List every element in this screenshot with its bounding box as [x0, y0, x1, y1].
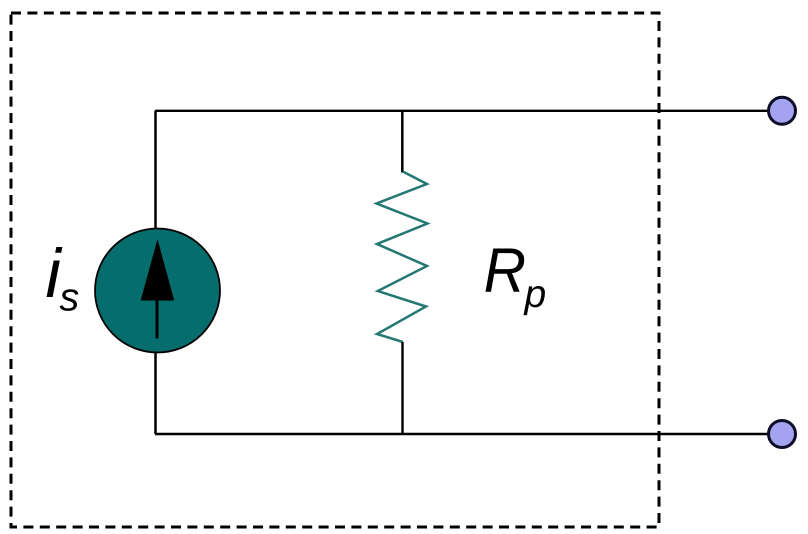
current source arrow — [141, 241, 173, 300]
terminal top — [769, 97, 796, 124]
wire top horizontal — [155, 110, 768, 112]
current source circle — [95, 229, 220, 353]
terminal bottom — [769, 421, 796, 448]
dashed enclosure box — [11, 13, 659, 527]
label is — [47, 247, 63, 297]
wire bottom horizontal — [155, 433, 768, 435]
wire resistor top lead — [401, 111, 404, 173]
label Rp — [486, 248, 525, 291]
current source arrow tail — [156, 297, 159, 339]
wire current source top lead — [154, 111, 157, 230]
wire resistor bottom lead — [401, 342, 403, 434]
wire current source bottom lead — [154, 351, 157, 434]
resistor Rp zigzag — [377, 172, 428, 343]
